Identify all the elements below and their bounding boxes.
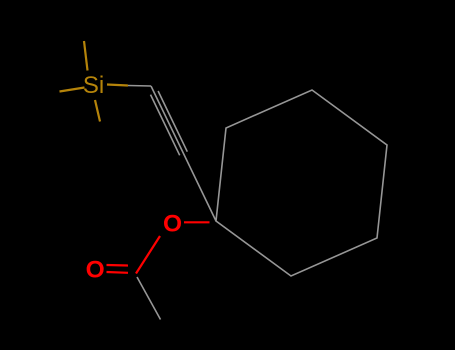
svg-text:O: O [163,211,182,238]
svg-text:O: O [86,256,105,283]
svg-text:Si: Si [83,72,104,99]
